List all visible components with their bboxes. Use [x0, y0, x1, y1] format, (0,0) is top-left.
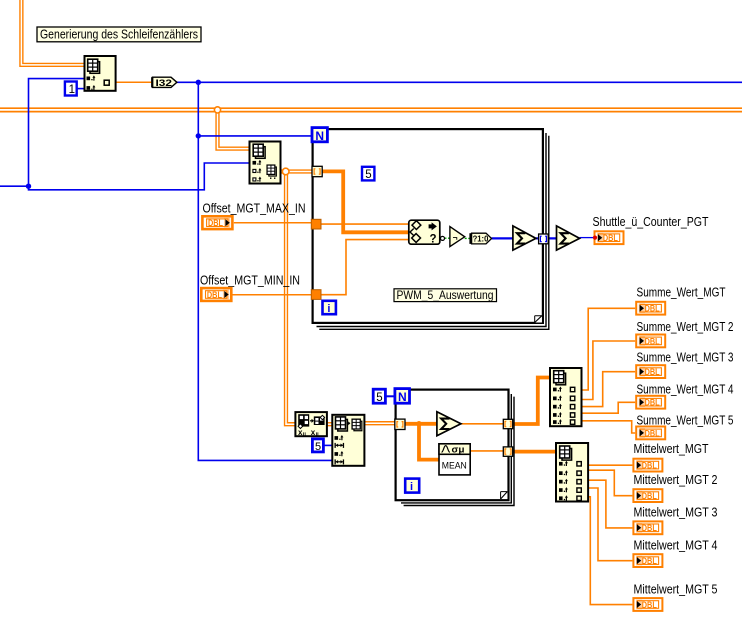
- node: Add Array Elements (sum 1): [513, 226, 536, 250]
- loop1 right tunnel: [539, 234, 549, 244]
- node: Add Array Elements (sum 3): [437, 412, 461, 436]
- label + indicator: Shuttle_ue_Counter_PGT: [593, 214, 709, 244]
- wire: MIN thin up into In Range: [321, 240, 409, 295]
- wire: 2D-array reshape to loop2 tunnel: [364, 421, 395, 425]
- svg-text:Generierung des Schleifenzähle: Generierung des Schleifenzählers: [40, 27, 198, 42]
- wire: 2D-array subset output to loop1 tunnel: [281, 169, 313, 173]
- svg-text:N: N: [315, 129, 324, 143]
- node: Mean.vi: [439, 444, 470, 475]
- svg-text:Mittelwert_MGT 4: Mittelwert_MGT 4: [634, 537, 718, 552]
- wire: loop2 branch down to MEAN: [419, 424, 439, 460]
- node: Index Array 1 (Summe): [550, 368, 582, 426]
- wire: blue int out of select: [492, 237, 513, 239]
- wires: Index Array 1 outputs to Summe DBLs: [582, 308, 636, 390]
- wire: loop2 out up to Index Array 1: [513, 378, 550, 425]
- wire: I32 blue output across to right: [177, 81, 742, 83]
- svg-text:Offset_MGT_MAX_IN: Offset_MGT_MAX_IN: [203, 201, 306, 216]
- wire: loop2 1D thick to sum: [405, 422, 437, 426]
- node: Boolean to (1,0): [470, 233, 491, 244]
- loop1 MIN input tunnel: [311, 290, 321, 300]
- junction: subset output hollow dot: [282, 168, 289, 175]
- node: Array Subset: [250, 142, 281, 184]
- svg-text:Mittelwert_MGT 5: Mittelwert_MGT 5: [634, 581, 718, 596]
- loop2 corner fold: [501, 492, 508, 499]
- wire: blue thin to DBL indicator: [580, 237, 594, 239]
- svg-text:Shuttle_ü_Counter_PGT: Shuttle_ü_Counter_PGT: [593, 214, 709, 229]
- wire: icon output orange to I32: [116, 81, 152, 83]
- wire: blue branch right to subset icon: [29, 163, 250, 190]
- loop2 left tunnel: [395, 419, 405, 429]
- constant 5 (loop1): [362, 167, 374, 181]
- FOR LOOP 1 frame: [313, 129, 549, 329]
- constant 1: [65, 82, 77, 97]
- label: PWM_5_Auswertung: [394, 288, 497, 302]
- wire: constant 1 to icon: [77, 88, 85, 90]
- svg-text:I32: I32: [156, 78, 173, 89]
- svg-text:Mittelwert_MGT 2: Mittelwert_MGT 2: [634, 472, 718, 487]
- node: Index Array 2 (Mittelwert): [556, 443, 588, 502]
- wires: Index Array 2 outputs to Mittelwert DBLs: [588, 464, 632, 466]
- node: In Range and Coerce: [409, 220, 440, 245]
- loop2 N count terminal: [395, 389, 410, 404]
- svg-text:¬: ¬: [453, 233, 458, 243]
- svg-text:Mittelwert_MGT 3: Mittelwert_MGT 3: [634, 505, 718, 520]
- svg-text:1: 1: [69, 84, 75, 96]
- constant 5 (loop2 N): [373, 389, 385, 404]
- wire: 2D-array drop from rail to subset icon: [218, 110, 250, 149]
- wire: blue to loop1 N: [198, 135, 311, 137]
- wire: 2D-array transpose to reshape: [327, 422, 332, 426]
- junction dot: [26, 184, 31, 189]
- svg-text:Offset_MGT_MIN_IN: Offset_MGT_MIN_IN: [200, 273, 300, 288]
- svg-text:Summe_Wert_MGT 2: Summe_Wert_MGT 2: [637, 319, 734, 334]
- svg-text:Mittelwert_MGT: Mittelwert_MGT: [634, 441, 709, 456]
- wire: MEAN out to tunnel: [470, 450, 503, 452]
- node: Add Array Elements (sum 2, outside): [557, 226, 580, 250]
- wire: sum3 out to tunnel: [461, 423, 504, 425]
- wire: 2D-array from top edge into Index Array icon: [21, 0, 84, 65]
- svg-text:Summe_Wert_MGT 5: Summe_Wert_MGT 5: [637, 413, 734, 428]
- wire: boolean green dashes: [440, 237, 441, 239]
- loop1 iteration terminal i: [323, 301, 336, 315]
- svg-text:5: 5: [315, 441, 321, 453]
- svg-text:i: i: [410, 481, 413, 493]
- svg-text:?1:0: ?1:0: [473, 234, 489, 243]
- label + control: Offset_MGT_MAX_IN: [202, 201, 305, 230]
- labels + indicators: Summe_Wert_MGT 1-5: [637, 285, 734, 428]
- junction: rail hollow dot: [214, 107, 220, 113]
- wire: blue from left edge up into Index Array: [0, 79, 85, 187]
- conversion bullet I32: [152, 77, 177, 89]
- svg-text:Summe_Wert_MGT 3: Summe_Wert_MGT 3: [637, 350, 734, 365]
- svg-text:5: 5: [376, 392, 382, 404]
- wire: 2D-array down to transpose: [286, 172, 295, 425]
- loop1 N count terminal: [312, 128, 327, 143]
- svg-text:Summe_Wert_MGT 4: Summe_Wert_MGT 4: [637, 382, 734, 397]
- loop1 MAX input tunnel: [311, 219, 321, 229]
- svg-text:i: i: [327, 303, 330, 315]
- FOR LOOP 2 frame: [396, 390, 514, 506]
- svg-text:ji: ji: [315, 432, 320, 438]
- loop1 corner fold: [535, 316, 542, 323]
- wire: blue vertical trunk: [198, 82, 332, 460]
- loop2 iteration terminal i: [405, 479, 419, 494]
- svg-text:5: 5: [365, 169, 371, 181]
- wire: MAX thin into In Range: [321, 223, 409, 225]
- label: Generierung des Schleifenzaehlers: [37, 27, 201, 42]
- loop1 left auto-index tunnel: [312, 166, 322, 176]
- wire: loop1 indexed row (1D thick) to In Range: [322, 171, 409, 232]
- svg-text:MEAN: MEAN: [442, 460, 467, 471]
- svg-text:N: N: [398, 390, 407, 404]
- wire: constant 5 to reshape: [323, 444, 332, 446]
- wire: Offset_MGT_MAX_IN to tunnel: [234, 222, 312, 224]
- node: Transpose 2D Array: [295, 412, 327, 438]
- node: Reshape Array: [332, 415, 364, 466]
- loop2 right tunnels: [503, 419, 512, 456]
- wire: Offset_MGT_MIN_IN to tunnel: [232, 294, 312, 296]
- svg-text:PWM_5_Auswertung: PWM_5_Auswertung: [397, 288, 494, 302]
- svg-text:ij: ij: [303, 432, 307, 438]
- wire: loop2 out to Index Array 2: [513, 450, 556, 454]
- node: Not: [441, 227, 465, 247]
- labels + indicators: Mittelwert_MGT 1-5: [634, 441, 718, 596]
- svg-text:Summe_Wert_MGT: Summe_Wert_MGT: [637, 285, 726, 300]
- svg-text:σμ: σμ: [452, 445, 465, 455]
- constant 5 (reshape): [312, 439, 323, 453]
- wire: 2D-array rail across full width: [0, 107, 742, 112]
- label + control: Offset_MGT_MIN_IN: [200, 273, 300, 301]
- junction dots: [196, 80, 201, 85]
- svg-text:?: ?: [430, 234, 437, 246]
- wire: blue sum to tunnel to outer sum: [536, 237, 557, 239]
- coercion dot red: [593, 236, 597, 240]
- node: Index Array (top-left): [85, 56, 116, 91]
